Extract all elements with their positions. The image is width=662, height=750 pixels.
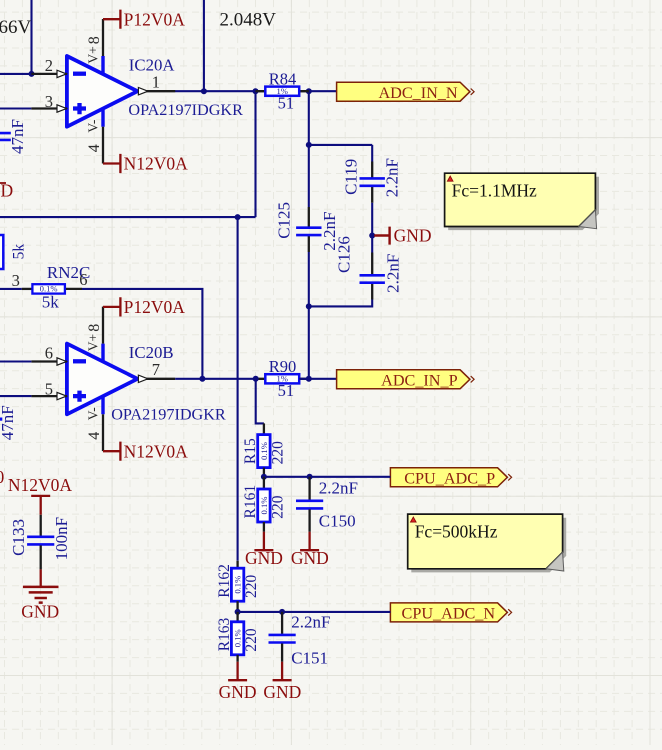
svg-text:CPU_ADC_P: CPU_ADC_P (404, 469, 495, 487)
svg-text:C133: C133 (9, 519, 28, 556)
svg-text:2.2nF: 2.2nF (291, 612, 330, 631)
svg-text:2.2nF: 2.2nF (319, 478, 358, 497)
svg-text:IC20A: IC20A (129, 55, 175, 74)
power port N12V0A at C133 (8, 475, 73, 515)
svg-text:0.1%: 0.1% (233, 576, 243, 594)
power port N12V0A (103, 441, 188, 461)
svg-text:IC20B: IC20B (129, 343, 174, 362)
node junction cap bottom (306, 303, 312, 309)
wire to port CPU_ADC_N (238, 611, 391, 613)
ground GND below R163 (219, 662, 257, 702)
node junction GND tap (369, 233, 375, 239)
power port N12V0A (103, 154, 188, 174)
pin R161 top (263, 477, 265, 489)
node junction R90 right (306, 376, 312, 382)
capacitor C126 (360, 275, 385, 282)
svg-text:66V: 66V (0, 17, 32, 38)
node junction C150 (307, 474, 313, 480)
svg-text:100nF: 100nF (52, 517, 71, 560)
svg-text:5k: 5k (42, 293, 60, 312)
pin V+ power (102, 19, 104, 56)
pin C125 bottom (308, 235, 310, 252)
wire to IC20A pin3 (0, 107, 31, 109)
pin 6 RN2C (65, 288, 82, 290)
pin R15 bottom (263, 468, 265, 477)
node junction feedback B (199, 376, 205, 382)
svg-text:C119: C119 (342, 159, 361, 195)
pin inverting input (31, 70, 67, 77)
ground GND side symbol (374, 225, 431, 245)
svg-text:C151: C151 (291, 648, 328, 667)
wire R84 to port ADC_IN_N (299, 90, 336, 92)
pin C151 bottom (281, 644, 283, 662)
node junction pin2 (29, 71, 35, 77)
pin C133 top (40, 515, 42, 536)
wire cap branch bottom (309, 300, 372, 307)
svg-text:4: 4 (86, 144, 103, 152)
svg-text:ADC_IN_N: ADC_IN_N (378, 84, 457, 102)
svg-text:3: 3 (12, 271, 20, 290)
svg-text:C125: C125 (274, 202, 293, 239)
pin non-inverting input (31, 392, 67, 399)
node junction cap top (306, 142, 312, 148)
pin V+ power (102, 307, 104, 344)
svg-text:47nF: 47nF (8, 119, 27, 154)
pin stubs R90 (256, 378, 309, 380)
pin output (138, 88, 175, 95)
capacitor C133 (27, 537, 54, 545)
svg-text:V-: V- (86, 119, 101, 133)
svg-text:P12V0A: P12V0A (124, 297, 186, 317)
resistor 5k (clipped) (0, 235, 27, 269)
svg-text:V+: V+ (86, 46, 101, 63)
wire to port CPU_ADC_P (264, 476, 391, 478)
svg-text:GND: GND (291, 548, 329, 568)
power port P12V0A (103, 9, 185, 29)
wire to IC20B pin6 (0, 360, 31, 362)
wire column C125 upper (308, 91, 310, 207)
ground GND earth symbol (21, 569, 59, 621)
port ADC_IN_P (337, 370, 475, 390)
wire to IC20A pin2 (0, 73, 32, 75)
node junction R84 right (306, 88, 312, 94)
note Fc=1.1MHz (445, 173, 599, 230)
svg-text:OPA2197IDGKR: OPA2197IDGKR (128, 101, 243, 119)
node junction 2.048V (201, 88, 207, 94)
svg-text:N12V0A: N12V0A (124, 441, 189, 461)
svg-text:51: 51 (278, 381, 295, 400)
wire tap down to R162 (237, 217, 239, 561)
svg-text:C126: C126 (335, 236, 354, 273)
pin inverting input (31, 358, 67, 365)
svg-text:220: 220 (270, 441, 287, 465)
pin R162 bottom (236, 601, 238, 612)
svg-text:220: 220 (243, 628, 260, 652)
svg-text:V-: V- (86, 407, 101, 421)
wire 2.048V net vertical (203, 0, 205, 91)
wire 66V net vertical (30, 0, 32, 74)
wire to RN2C pin3 (0, 288, 22, 290)
svg-text:GND: GND (245, 548, 283, 568)
wire R90 to port ADC_IN_P (299, 378, 336, 380)
wire long horizontal left net (0, 216, 256, 218)
wire C119 to GND node (371, 203, 373, 253)
node junction R90 left (253, 376, 259, 382)
svg-text:2.2nF: 2.2nF (384, 254, 403, 293)
svg-text:0: 0 (0, 467, 5, 487)
svg-text:OPA2197IDGKR: OPA2197IDGKR (111, 406, 226, 424)
wire IC20A output to R84 (175, 90, 265, 92)
svg-text:N12V0A: N12V0A (8, 475, 73, 495)
resistor R90 (265, 374, 299, 384)
pin R163 bottom (236, 655, 238, 662)
node junction feedback A (253, 88, 259, 94)
capacitor C150 (296, 501, 323, 509)
net label D with overbar (0, 181, 13, 201)
svg-text:R90: R90 (269, 357, 297, 376)
pin C125 top (308, 207, 310, 227)
svg-text:C150: C150 (319, 511, 356, 530)
resistor RN2C (32, 284, 65, 294)
svg-text:8: 8 (86, 36, 103, 44)
pin C133 bottom (40, 545, 42, 569)
capacitor 47nF lower (clipped) (0, 405, 17, 440)
node junction tap (235, 214, 241, 220)
svg-text:2.048V: 2.048V (220, 10, 277, 31)
svg-text:5k: 5k (10, 244, 27, 260)
svg-text:D: D (1, 181, 14, 201)
svg-text:Fc=1.1MHz: Fc=1.1MHz (452, 181, 537, 201)
ground GND below C150 (291, 532, 329, 568)
svg-text:220: 220 (270, 495, 287, 519)
node junction C151 (279, 609, 285, 615)
power port P12V0A (103, 297, 185, 317)
wire to IC20B pin5 (0, 395, 31, 397)
svg-text:6: 6 (79, 270, 87, 289)
capacitor C151 (269, 635, 296, 643)
svg-text:R84: R84 (269, 69, 297, 88)
resistor R84 (265, 86, 299, 96)
pin C126 top (371, 253, 373, 275)
svg-text:5: 5 (45, 379, 53, 398)
svg-text:3: 3 (45, 92, 53, 111)
pin 3 RN2C (22, 288, 33, 290)
pin R15 top (263, 423, 265, 434)
svg-text:R162: R162 (216, 564, 233, 598)
node junction R15/R161 (261, 474, 267, 480)
resistor R163 (231, 622, 243, 655)
svg-text:GND: GND (219, 682, 257, 702)
wire jog to R15 (256, 379, 264, 424)
pin non-inverting input (31, 105, 67, 112)
pin C151 top (281, 612, 283, 634)
pin V- power (102, 414, 104, 451)
resistor R162 (231, 568, 243, 601)
svg-text:220: 220 (243, 575, 260, 599)
resistor R161 (258, 489, 270, 522)
capacitor C125 (296, 228, 321, 235)
op-amp IC20B OPA2197IDGKR (67, 344, 138, 415)
pin C150 top (308, 477, 310, 500)
svg-text:7: 7 (152, 360, 160, 379)
svg-text:8: 8 (86, 324, 103, 332)
svg-text:0.1%: 0.1% (259, 497, 269, 515)
svg-text:4: 4 (86, 432, 103, 440)
resistor R15 (258, 435, 270, 468)
wire RN2C to feedback B (82, 289, 202, 379)
pin R163 top (236, 612, 238, 622)
note Fc=500kHz (408, 514, 566, 572)
svg-text:2: 2 (45, 56, 53, 75)
svg-text:0.1%: 0.1% (233, 629, 243, 647)
port ADC_IN_N (337, 82, 475, 102)
svg-text:6: 6 (45, 344, 53, 363)
port CPU_ADC_P (390, 468, 511, 488)
svg-text:R161: R161 (242, 485, 259, 519)
pin V- power (102, 127, 104, 164)
ground GND below C151 (263, 662, 301, 702)
node junction R162/R163 (235, 609, 241, 615)
port CPU_ADC_N (390, 603, 511, 623)
svg-text:CPU_ADC_N: CPU_ADC_N (402, 605, 496, 623)
svg-text:N12V0A: N12V0A (124, 154, 189, 174)
svg-text:47nF: 47nF (0, 405, 17, 440)
pin C126 bottom (371, 282, 373, 299)
wire feedback A down (254, 91, 256, 217)
svg-text:R163: R163 (216, 617, 233, 651)
pin C150 bottom (308, 509, 310, 531)
svg-text:Fc=500kHz: Fc=500kHz (415, 522, 498, 542)
pin C119 top (371, 162, 373, 179)
pin stubs R84 (256, 90, 309, 92)
svg-text:0.1%: 0.1% (259, 442, 269, 460)
op-amp IC20A OPA2197IDGKR (67, 56, 138, 127)
ground GND below R161 (245, 532, 283, 568)
svg-text:1: 1 (152, 72, 160, 91)
pin R162 top (236, 561, 238, 568)
svg-text:P12V0A: P12V0A (124, 9, 186, 29)
wire cap branch top (309, 145, 372, 162)
svg-text:R15: R15 (242, 438, 259, 464)
wire column C125 lower (308, 252, 310, 379)
svg-text:51: 51 (278, 93, 295, 112)
svg-text:GND: GND (394, 225, 432, 245)
pin C119 bottom (371, 186, 373, 203)
pin output (138, 375, 175, 382)
capacitor 47nF upper (clipped) (0, 119, 27, 154)
svg-text:2.2nF: 2.2nF (383, 158, 402, 197)
svg-text:ADC_IN_P: ADC_IN_P (381, 371, 457, 389)
pin R161 bottom (263, 522, 265, 532)
wire IC20B output row (175, 378, 256, 380)
svg-text:GND: GND (263, 682, 301, 702)
svg-text:GND: GND (21, 601, 59, 621)
capacitor C119 (360, 178, 385, 185)
svg-text:V+: V+ (86, 334, 101, 351)
